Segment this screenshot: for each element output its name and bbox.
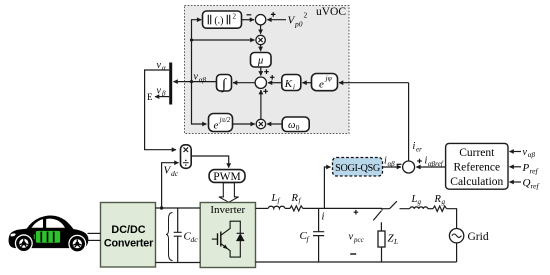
wire: omega0 to x2 xyxy=(267,123,282,125)
electric car with battery xyxy=(9,215,89,252)
capacitor Cf branch xyxy=(318,208,320,262)
wire: v_alphabeta output to bar xyxy=(174,81,217,83)
wire: sum1 to x1 xyxy=(260,25,262,34)
svg-text:dc: dc xyxy=(171,169,179,178)
svg-text:K: K xyxy=(284,78,293,90)
node: junction on x1 feed xyxy=(190,38,193,41)
wire: Qref input xyxy=(510,181,522,183)
summing junction sum3 xyxy=(403,161,415,173)
AC top rail: inverter to filter xyxy=(256,207,269,209)
wire: vertical feed line inside uVOC xyxy=(192,20,202,82)
IGBT Q1 with diode inside inverter xyxy=(212,221,244,258)
svg-text:E: E xyxy=(147,92,153,102)
svg-text:α: α xyxy=(162,64,166,72)
multiplier x1 xyxy=(256,35,265,44)
switch to ZL xyxy=(373,209,382,231)
block omega0 xyxy=(282,117,309,132)
svg-text:f: f xyxy=(299,197,302,205)
svg-text:e: e xyxy=(214,120,219,132)
inverter block xyxy=(200,203,255,268)
DC link bottom rail xyxy=(156,262,201,264)
brace for Vdc measurement xyxy=(166,213,173,261)
wire: ZL to bottom rail xyxy=(381,247,383,262)
front wheel arch xyxy=(15,234,33,252)
wire: current tap up to SOGI-QSG xyxy=(324,167,330,208)
wire: Vdc into divide input xyxy=(162,163,179,208)
svg-text:Reference: Reference xyxy=(453,162,500,174)
svg-text:uVOC: uVOC xyxy=(316,6,346,18)
svg-text:ref: ref xyxy=(531,182,540,191)
wire: Rg to grid xyxy=(447,209,457,229)
resistor Rg xyxy=(433,206,447,211)
wire: Vp0^2 into sum1, plus sign xyxy=(267,19,286,21)
inductor Lf xyxy=(268,206,285,208)
svg-text:i: i xyxy=(322,212,325,223)
rear wheel arch xyxy=(68,235,86,253)
svg-text:2: 2 xyxy=(233,12,237,20)
svg-text:αβref: αβref xyxy=(428,160,444,168)
svg-text:0: 0 xyxy=(296,123,300,132)
AC bottom rail xyxy=(256,261,457,263)
multiply-divide block xyxy=(181,145,192,169)
svg-text:Inverter: Inverter xyxy=(210,204,245,216)
svg-text:R: R xyxy=(434,194,442,205)
svg-text:Grid: Grid xyxy=(468,231,489,243)
svg-text:P: P xyxy=(522,162,530,174)
wire: x1 to mu xyxy=(260,45,262,51)
svg-text:αβ: αβ xyxy=(528,151,536,159)
wire: v_alphabeta input xyxy=(510,151,522,153)
wire: sum3 error up to e^jphi line xyxy=(408,83,410,161)
svg-text:μ: μ xyxy=(257,56,263,67)
svg-text:αβ: αβ xyxy=(199,76,207,84)
svg-text:PWM: PWM xyxy=(213,171,240,183)
PWM hollow block arrow to inverter xyxy=(219,183,239,203)
svg-text:DC/DC: DC/DC xyxy=(111,224,145,236)
svg-text:Calculation: Calculation xyxy=(450,176,503,188)
wire: feed to multiplier x1 xyxy=(192,39,255,41)
svg-text:v: v xyxy=(523,147,528,158)
svg-text:αβ: αβ xyxy=(388,160,396,168)
svg-text:jπ/2: jπ/2 xyxy=(219,116,231,124)
svg-text:g: g xyxy=(418,198,422,206)
gain block Ki xyxy=(282,75,301,91)
gain block mu xyxy=(251,53,272,68)
wire: v_alpha out of bar, down to x/div block xyxy=(145,70,176,150)
wire: mu to sum2, plus sign xyxy=(260,67,262,76)
svg-text:jφ: jφ xyxy=(325,74,332,83)
block e^jphi xyxy=(312,74,338,91)
grid AC source xyxy=(449,229,463,243)
wire: x/div output to PWM xyxy=(191,156,229,168)
svg-text:p0: p0 xyxy=(294,20,303,29)
wire: sum2 to integrator xyxy=(233,82,255,84)
wire: x2 up to sum2, plus sign xyxy=(260,90,262,119)
resistor Rf xyxy=(290,206,303,211)
svg-text:dc: dc xyxy=(191,235,199,244)
svg-text:2: 2 xyxy=(304,11,308,20)
svg-text:SOGI-QSG: SOGI-QSG xyxy=(335,163,381,174)
bus bar (thick) xyxy=(169,63,172,105)
svg-text:v: v xyxy=(194,72,199,83)
SOGI-QSG block xyxy=(333,158,383,177)
svg-text:Current: Current xyxy=(459,147,495,159)
switch to grid xyxy=(382,201,410,209)
svg-text:er: er xyxy=(416,145,422,153)
summing junction sum2 xyxy=(255,77,266,88)
svg-text:v: v xyxy=(157,86,162,97)
plus sign vpcc xyxy=(354,210,359,215)
wire: ierr feed into e^jphi xyxy=(339,82,409,84)
wire: norm block input arrow xyxy=(199,19,201,21)
battery pack xyxy=(35,230,61,244)
svg-text:g: g xyxy=(442,198,446,206)
wire: e^jpi/2 to x2 xyxy=(233,123,255,125)
node: junction on v_alphabeta line xyxy=(190,80,193,83)
node: Vdc tap junction xyxy=(160,206,163,209)
svg-text:e: e xyxy=(319,79,324,91)
wire: grid to bottom rail xyxy=(456,243,458,262)
PWM block xyxy=(209,170,245,183)
DC link top rail xyxy=(156,207,201,209)
wire: v_beta arrow to E xyxy=(155,96,169,98)
wire: iref into sum3, plus sign xyxy=(416,166,445,168)
minus sign vpcc xyxy=(350,253,356,255)
current reference calculation block xyxy=(446,143,508,189)
wire: norm to sum1, minus sign xyxy=(242,19,255,21)
capacitor Cdc xyxy=(177,208,179,263)
integrator block xyxy=(217,75,232,92)
wire: Ki to sum2, plus sign xyxy=(268,82,282,84)
wire: car to converter (upper) xyxy=(88,232,101,234)
svg-text:L: L xyxy=(393,237,398,246)
wire Lf to Rf xyxy=(285,207,290,209)
summing junction sum1 xyxy=(255,15,265,25)
wire: feed down to e^jpi/2 xyxy=(192,82,207,124)
svg-text:R: R xyxy=(291,193,299,204)
wire: e^jphi to Ki xyxy=(302,82,311,84)
svg-text:ref: ref xyxy=(530,166,539,175)
DC/DC converter block xyxy=(101,203,156,268)
svg-text:L: L xyxy=(271,193,278,204)
windows xyxy=(32,219,44,227)
svg-text:ω: ω xyxy=(288,120,295,131)
svg-text:Q: Q xyxy=(523,177,531,189)
wire: Pref input xyxy=(510,166,522,168)
block e^jpi/2 xyxy=(209,114,233,132)
svg-text:Converter: Converter xyxy=(104,237,154,249)
car body lower xyxy=(9,228,89,248)
car cabin roof xyxy=(26,215,75,230)
svg-text:pcc: pcc xyxy=(353,236,365,244)
svg-text:f: f xyxy=(307,234,310,243)
wire: car to converter (lower) xyxy=(88,239,101,241)
rear wheel xyxy=(70,236,85,251)
svg-text:(.): (.) xyxy=(214,15,223,26)
svg-text:L: L xyxy=(411,194,418,205)
uVOC dashed container xyxy=(185,6,350,134)
multiplier x2 xyxy=(256,119,265,128)
impedance ZL xyxy=(378,231,385,247)
wire: Rf to PCC node xyxy=(303,207,382,209)
inductor Lg xyxy=(410,207,428,209)
svg-text:i: i xyxy=(293,83,295,91)
wire: SOGI output to sum3, minus sign xyxy=(383,166,402,168)
svg-text:v: v xyxy=(349,232,354,243)
wire Lg to Rg xyxy=(428,208,433,210)
svg-text:f: f xyxy=(278,197,281,205)
headlight xyxy=(11,233,16,236)
norm block ||(.)||^2 xyxy=(203,11,242,28)
svg-text:v: v xyxy=(157,60,162,71)
front wheel xyxy=(16,236,31,251)
